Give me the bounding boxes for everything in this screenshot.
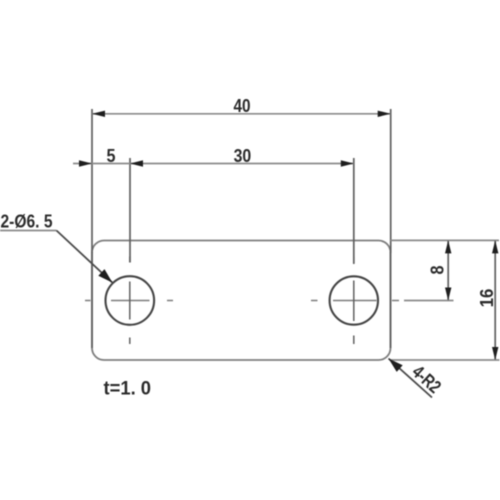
centerline left hole horizontal	[85, 300, 173, 302]
arrow dim30 right	[341, 160, 354, 166]
leader line 4-R2	[389, 359, 433, 398]
dimension line 8	[447, 240, 449, 300]
dimension line 5-30	[92, 163, 354, 165]
arrow leader hole	[98, 269, 112, 283]
svg-text:5: 5	[107, 145, 116, 166]
centerline right hole vertical	[353, 257, 355, 344]
plate left edge (darker vertical)	[91, 252, 93, 348]
arrow dim30 left	[130, 160, 143, 166]
plate right edge (darker vertical)	[390, 252, 392, 348]
extension line left hole center	[129, 158, 131, 263]
hole left	[106, 276, 155, 325]
svg-text:40: 40	[234, 95, 251, 116]
dimension line 16	[494, 240, 496, 360]
leader diagonal 2-dia6.5	[57, 231, 113, 283]
extension line left edge	[91, 109, 93, 253]
arrow dim16 bottom	[492, 347, 498, 360]
centerline right hole horizontal	[311, 300, 399, 302]
arrow dim40 left	[92, 111, 105, 117]
centerline left hole vertical	[129, 257, 131, 345]
plate outline	[92, 241, 391, 361]
svg-text:8: 8	[427, 266, 448, 275]
hole right	[330, 276, 378, 324]
extension line right edge	[390, 109, 392, 253]
svg-text:t=1. 0: t=1. 0	[104, 379, 152, 400]
arrow dim40 right	[378, 111, 391, 117]
arrow leader corner	[389, 359, 403, 372]
dimension line 40	[92, 113, 391, 115]
svg-text:2-Ø6. 5: 2-Ø6. 5	[1, 211, 53, 232]
leader underline 2-dia6.5	[0, 230, 57, 232]
extension line top edge right	[391, 239, 500, 241]
extension line hole center right	[404, 300, 454, 302]
arrow dim16 top	[492, 240, 498, 253]
arrow dim5 left outside	[79, 160, 92, 166]
arrow dim8 top	[445, 240, 451, 253]
arrow dim8 bottom	[445, 288, 451, 301]
extension line right hole center	[353, 158, 355, 264]
dimension line 5 tail	[73, 163, 92, 165]
extension line bottom edge right	[391, 359, 500, 361]
svg-text:30: 30	[234, 145, 252, 166]
svg-text:16: 16	[476, 289, 497, 308]
